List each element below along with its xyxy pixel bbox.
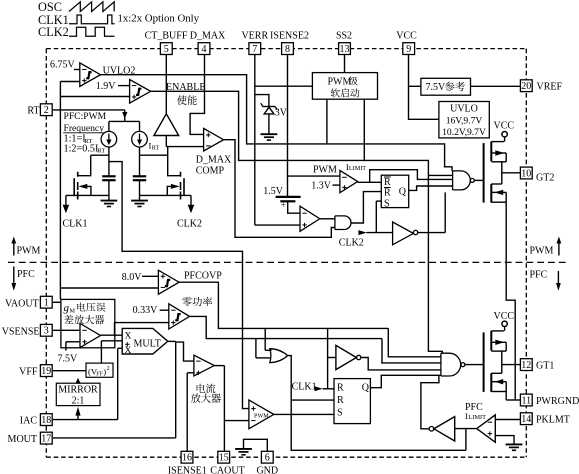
wire soft start outputs: [327, 99, 364, 160]
svg-text:8: 8: [285, 44, 290, 55]
NAND gate PWM driver: [453, 171, 483, 190]
svg-text:OSC: OSC: [38, 0, 62, 14]
svg-text:CAOUT: CAOUT: [210, 465, 244, 474]
wire long line 2 to PFC NAND input 2: [381, 339, 441, 363]
block MULT multiplier: [122, 328, 168, 356]
svg-text:ISENSE1: ISENSE1: [168, 465, 207, 474]
wire RT to current sources with arrow: [53, 110, 140, 131]
wire UVLO2 output: [101, 75, 453, 171]
svg-text:3V: 3V: [275, 107, 288, 118]
svg-text:12: 12: [521, 360, 531, 371]
svg-text:CLK2: CLK2: [38, 25, 69, 39]
comparator PWM (PFC stage): [249, 400, 274, 429]
svg-text:10: 10: [521, 168, 531, 179]
wire ILIMIT output to flipflop and NAND: [358, 170, 453, 183]
pin 8 ISENSE2: [270, 31, 309, 197]
wire PFCOVP output long line: [179, 282, 388, 328]
zener 3V on VERR: [255, 95, 288, 134]
buffer CT to pin 5: [154, 114, 179, 147]
wire MULT output: [168, 341, 194, 438]
pin 6 GND: [244, 439, 279, 474]
svg-text:8.0V: 8.0V: [122, 272, 143, 283]
svg-text:2: 2: [44, 105, 49, 116]
svg-text:Q: Q: [399, 186, 407, 197]
wire I1 to timing cap C1: [91, 147, 109, 176]
svg-text:VAOUT: VAOUT: [5, 298, 39, 309]
svg-text:RT: RT: [97, 148, 105, 155]
op-amp current amplifier: [191, 355, 221, 403]
PWM/PFC section divider (dashed): [8, 261, 569, 263]
svg-text:1:2=0.5I: 1:2=0.5I: [64, 143, 99, 154]
svg-text:19: 19: [41, 366, 51, 377]
ground under C2: [131, 201, 148, 207]
svg-text:R: R: [384, 188, 391, 199]
reference 7.5V at gm +: [58, 342, 81, 365]
svg-text:6: 6: [265, 453, 270, 464]
svg-text:COMP: COMP: [196, 166, 225, 177]
svg-text:PWM: PWM: [328, 77, 352, 88]
pin 18 IAC: [20, 414, 118, 427]
svg-text:GT2: GT2: [536, 172, 554, 183]
capacitor C1: [102, 176, 115, 200]
svg-text:IAC: IAC: [20, 416, 38, 427]
wire GT2 source to PWRGND rail: [506, 202, 515, 400]
svg-text:UVLO: UVLO: [450, 103, 478, 114]
comparator PFCOVP 8.0V: [122, 270, 222, 294]
pin 17 MOUT: [8, 432, 176, 445]
svg-text:VFF: VFF: [19, 367, 38, 378]
svg-text:7: 7: [252, 44, 257, 55]
NAND gate PFC driver: [441, 353, 483, 376]
pin 9 VCC: [396, 31, 439, 120]
svg-text:S: S: [337, 408, 343, 419]
svg-text:SS2: SS2: [336, 31, 352, 42]
CLK2 import arrow to flipflop S: [339, 201, 393, 248]
pin 12 GT1: [502, 359, 555, 372]
svg-text:PFC: PFC: [17, 269, 35, 280]
wire Q output to NAND: [409, 186, 453, 190]
current source I2 IRT: [132, 131, 160, 151]
comparator 1.9V ENABLE: [96, 80, 206, 104]
node UVLO2 line junction: [0, 0, 1, 1]
svg-text:11: 11: [521, 395, 531, 406]
transistor GT2 low side: [491, 162, 506, 203]
pin 10 GT2: [502, 167, 555, 183]
pin 1 VAOUT: [5, 296, 61, 309]
svg-text:MIRROR: MIRROR: [58, 384, 98, 395]
op-amp gm error amp: [80, 324, 101, 348]
svg-text:R: R: [384, 177, 391, 188]
svg-text:2: 2: [107, 366, 110, 372]
svg-text:4: 4: [202, 44, 207, 55]
wire buffer output to PFC NAND input 3: [361, 358, 441, 370]
svg-text:1: 1: [44, 298, 49, 309]
ground under zener: [261, 134, 278, 140]
block PWM soft start: [312, 73, 377, 100]
IC boundary (dashed): [46, 49, 526, 458]
svg-text:PWM: PWM: [313, 164, 337, 175]
svg-text:PFC:PWM: PFC:PWM: [64, 111, 107, 122]
svg-text:ISENSE2: ISENSE2: [270, 31, 309, 42]
current source I1: [101, 131, 117, 147]
svg-text:2:1: 2:1: [72, 395, 85, 406]
svg-text:MOUT: MOUT: [8, 434, 37, 445]
inverter PFC ILIMIT: [429, 417, 455, 441]
wire I2 to timing cap C2: [140, 147, 168, 176]
svg-text:D_MAX: D_MAX: [190, 31, 226, 42]
svg-text:7.5V: 7.5V: [58, 353, 79, 364]
PWM label right: [530, 237, 562, 257]
block gm voltage error amplifier: [61, 299, 115, 347]
CLK2 waveform legend: [38, 25, 115, 39]
pin 19 VFF: [19, 365, 86, 378]
wire VERR to duty comparator +: [255, 224, 300, 226]
svg-text:RT: RT: [152, 145, 160, 152]
wire inverter output to NAND bottom: [418, 192, 445, 232]
AND gate PWM: [335, 216, 351, 230]
svg-text:RT: RT: [27, 105, 39, 116]
label PFC:PWM frequency ratio: [63, 111, 106, 155]
node rail from UVLO2 + input: [60, 82, 158, 300]
svg-text:Q: Q: [362, 382, 370, 393]
pin 11 PWRGND: [506, 394, 579, 407]
svg-text:S: S: [384, 198, 390, 209]
wire gm output to multiplier: [101, 334, 123, 336]
wire ENABLE long line to right rail: [151, 91, 443, 353]
OSC waveform legend: [38, 0, 114, 14]
CLK2 output arrow: [177, 195, 202, 229]
svg-text:MULT: MULT: [134, 338, 161, 349]
svg-text:15: 15: [219, 453, 229, 464]
transistor M1 CLK1 switch: [66, 155, 109, 199]
comparator zero power 0.33V: [133, 297, 213, 329]
wire D_MAX output to PWM AND gate: [224, 140, 335, 238]
svg-text:CLK2: CLK2: [339, 237, 364, 248]
wire VERR to soft start: [255, 85, 313, 87]
inverter CLK2 PWM: [393, 222, 418, 245]
svg-text:R: R: [337, 382, 344, 393]
wire GT1 source to PWRGND: [505, 392, 507, 401]
wire ILIMIT output to inverter and OR line: [455, 429, 477, 451]
capacitor C2: [133, 176, 146, 200]
svg-text:CLK2: CLK2: [177, 219, 202, 230]
wire gm output to zero power comparator: [115, 323, 169, 336]
note 1x:2x Option Only: [118, 12, 200, 24]
comparator UVLO2 6.75V: [50, 60, 135, 87]
arrow IAC to MIRROR: [75, 407, 80, 420]
CLK1 import arrow: [292, 381, 334, 392]
svg-text:18: 18: [41, 415, 51, 426]
flipflop PFC RS latch: [334, 379, 370, 424]
PWM label left: [11, 237, 40, 257]
ground at PKLMT comparator: [506, 444, 523, 450]
transistor GT1 low side: [491, 351, 506, 392]
flipflop PWM RS latch: [381, 175, 408, 209]
wire VFF squared to MULT: [101, 341, 122, 363]
svg-text:CLK1: CLK1: [292, 381, 317, 392]
svg-text:PFCOVP: PFCOVP: [184, 270, 222, 281]
pin 3 VSENSE: [2, 324, 80, 337]
wire PKLMT comparator + to ground: [495, 436, 514, 444]
CLK1 output arrow: [63, 195, 88, 229]
wire PWM comparator output to FF S: [274, 413, 334, 415]
comparator PWM duty 1.5V: [300, 206, 335, 231]
block UVLO: [439, 102, 489, 139]
wire long line to PFC NAND input 1: [388, 328, 441, 356]
wire ISENSE1 to current amp +: [187, 372, 194, 374]
block MIRROR 2:1: [56, 383, 100, 406]
svg-text:CT_BUFF: CT_BUFF: [145, 31, 188, 42]
svg-text:VERR: VERR: [241, 31, 268, 42]
svg-text:X: X: [125, 332, 132, 342]
comparator PFC ILIMIT: [465, 402, 495, 442]
wire zero power output long line: [190, 316, 383, 338]
svg-text:VSENSE: VSENSE: [2, 326, 40, 337]
wire CLK1 net: [327, 328, 329, 388]
svg-text:3: 3: [44, 326, 49, 337]
pin 2 RT: [27, 104, 52, 117]
wire ENABLE branch to PWM NAND: [428, 174, 452, 176]
PFC label left: [11, 267, 35, 291]
svg-text:+: +: [281, 200, 286, 210]
wire PFCOVP to OR gate: [265, 328, 271, 350]
svg-text:20: 20: [521, 81, 531, 92]
OR gate PFC disable: [270, 349, 288, 363]
transistor GT2 high side: [484, 142, 507, 203]
svg-text:7.5V: 7.5V: [426, 82, 447, 93]
svg-text:16V,9.7V: 16V,9.7V: [446, 115, 483, 126]
svg-text:10.2V,9.7V: 10.2V,9.7V: [442, 127, 486, 138]
svg-text:PWM: PWM: [530, 246, 554, 257]
arrow MIRROR to VFF squared: [75, 378, 80, 384]
PFC label right: [530, 270, 561, 291]
svg-text:1.3V: 1.3V: [311, 181, 332, 192]
svg-text:17: 17: [41, 434, 51, 445]
wire AND output to flipflop R2: [351, 192, 381, 223]
wire zero power to OR gate: [256, 339, 271, 358]
VCC terminal GT1: [494, 311, 515, 331]
transistor GT1 high side: [484, 331, 507, 392]
wire ramp line C1 to PWM comparator: [109, 162, 249, 409]
block VFF squared: [86, 363, 113, 378]
svg-text:13: 13: [340, 44, 350, 55]
svg-text:VREF: VREF: [537, 81, 563, 92]
comparator PWM ILIMIT 1.3V: [288, 162, 367, 193]
pin 16 ISENSE1: [168, 373, 207, 474]
pin 20 VREF: [471, 80, 563, 93]
buffer CLK1 PFC: [328, 345, 361, 369]
pin 5 CT_BUFF: [145, 31, 188, 115]
svg-text:1.9V: 1.9V: [96, 81, 117, 92]
svg-text:1.5V: 1.5V: [263, 186, 284, 197]
pin 13 SS2: [336, 31, 352, 73]
svg-text:9: 9: [406, 44, 411, 55]
svg-text:VCC: VCC: [396, 31, 417, 42]
comparator D_MAX COMP: [196, 128, 232, 176]
wire inverter output to PFC NAND bottom: [421, 376, 439, 429]
svg-text:VCC: VCC: [494, 120, 515, 131]
svg-text:LIMIT: LIMIT: [468, 414, 486, 421]
wire IAC to MULT: [118, 348, 123, 419]
pin 7 VERR: [241, 31, 268, 226]
svg-text:GND: GND: [256, 465, 278, 474]
svg-text:M: M: [70, 307, 76, 314]
svg-text:LIMIT: LIMIT: [349, 165, 366, 172]
svg-text:16: 16: [182, 453, 192, 464]
svg-text:PWM: PWM: [17, 246, 41, 257]
svg-text:6.75V: 6.75V: [50, 60, 76, 71]
svg-text:PWRGND: PWRGND: [536, 396, 579, 407]
svg-text:14: 14: [521, 414, 531, 425]
wire current amp output CAOUT: [214, 366, 249, 421]
ground under C1: [101, 201, 118, 207]
block 7.5V reference: [421, 78, 471, 95]
ground at GND pin: [235, 449, 252, 455]
svg-text:GT1: GT1: [536, 360, 554, 371]
pin 4 D_MAX: [190, 31, 226, 135]
svg-text:CLK1: CLK1: [63, 219, 88, 230]
wire OR output down to PFC logic: [288, 356, 466, 451]
svg-text:R: R: [337, 395, 344, 406]
VCC terminal GT2: [494, 120, 515, 141]
label ENABLE chinese: [177, 95, 197, 105]
pin 15 CAOUT: [210, 366, 244, 474]
reference 1.5V on ISENSE2: [263, 186, 300, 213]
pin 14 PKLMT: [495, 413, 570, 426]
svg-text:5: 5: [164, 44, 169, 55]
CLK1 waveform legend: [38, 13, 115, 27]
svg-text:1x:2x Option Only: 1x:2x Option Only: [118, 12, 200, 24]
wire PFC Q output to NAND input 4: [370, 375, 441, 387]
transistor M2 CLK2 switch: [140, 147, 192, 200]
svg-text:PFC: PFC: [530, 270, 548, 281]
svg-text:0.33V: 0.33V: [133, 305, 159, 316]
svg-text:PWM: PWM: [254, 412, 269, 419]
svg-text:PKLMT: PKLMT: [536, 414, 570, 425]
svg-text:X: X: [125, 346, 132, 356]
wire D_MAX - input from C2 node: [166, 146, 203, 148]
svg-text:D_MAX: D_MAX: [196, 155, 232, 166]
